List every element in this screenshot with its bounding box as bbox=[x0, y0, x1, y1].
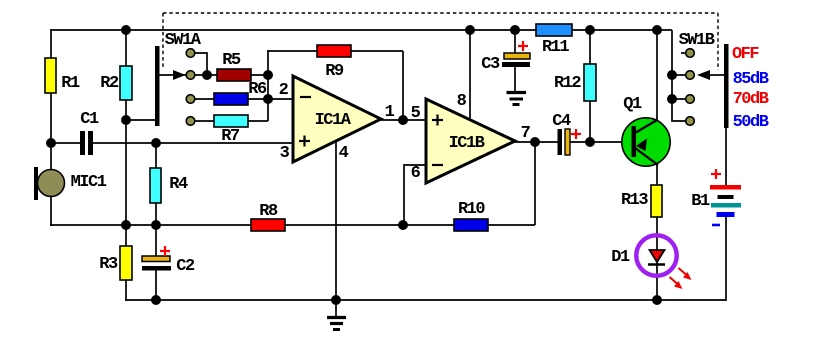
wire left vertical to R1 bbox=[50, 29, 52, 58]
node R12 rail junction bbox=[585, 25, 595, 35]
wire R7 row bbox=[191, 120, 214, 122]
node R4 top junction bbox=[151, 138, 161, 148]
resistor R13 bbox=[651, 185, 662, 217]
node main ground junction bbox=[331, 295, 341, 305]
ground symbol main bbox=[327, 301, 346, 330]
wire SW1B wiper bbox=[710, 74, 724, 76]
wire R3 top lead bbox=[125, 225, 127, 246]
dashed gang link top bbox=[163, 12, 718, 14]
wire R9 feedback vertical bbox=[402, 51, 404, 120]
resistor R11 bbox=[536, 24, 572, 36]
svg-text:R4: R4 bbox=[169, 175, 188, 194]
switch SW1B wiper arrow bbox=[697, 70, 710, 80]
node C3 rail junction bbox=[510, 25, 520, 35]
wire R4 top lead bbox=[155, 143, 157, 168]
C2 plus sign bbox=[160, 246, 170, 256]
wire battery plus to SW1B bar bbox=[725, 128, 727, 185]
resistor R4 bbox=[150, 168, 161, 203]
svg-text:R1: R1 bbox=[61, 74, 80, 93]
B1 minus sign bbox=[712, 224, 720, 227]
switch SW1A contact 2 bbox=[186, 71, 195, 80]
wire R1 bottom to MIC1 bbox=[50, 93, 52, 170]
resistor R1 bbox=[45, 58, 56, 93]
svg-text:7: 7 bbox=[521, 124, 531, 143]
resistor R8 bbox=[251, 219, 285, 231]
svg-text:MIC1: MIC1 bbox=[71, 173, 107, 192]
B1 plus sign bbox=[711, 169, 721, 179]
switch SW1B contact 2 bbox=[686, 71, 695, 80]
wire R12 top lead bbox=[589, 30, 591, 64]
wire IC1B pin8 supply bbox=[469, 30, 471, 120]
wire C3 top lead bbox=[514, 30, 516, 53]
D1 light arrow 1 bbox=[679, 268, 692, 280]
svg-text:1: 1 bbox=[385, 103, 395, 122]
node SW1B contact3 junction bbox=[667, 94, 677, 104]
svg-text:B1: B1 bbox=[691, 192, 710, 211]
wire R12 bottom lead bbox=[589, 101, 591, 142]
switch SW1A wiper arrow bbox=[173, 70, 186, 80]
node R3 rail junction bbox=[121, 220, 131, 230]
node R2 bottom junction bbox=[121, 115, 131, 125]
node SW1A contact junction bbox=[202, 70, 212, 80]
node D1 ground junction bbox=[652, 295, 662, 305]
node R5 right junction bbox=[263, 70, 273, 80]
wire battery minus vertical bbox=[725, 217, 727, 301]
wire R9 left bbox=[267, 50, 317, 52]
op-amp IC1A bbox=[293, 76, 381, 162]
wire C2 top lead bbox=[155, 225, 157, 256]
C4 plus sign bbox=[571, 129, 581, 139]
wire Q1 emitter to R13 to D1 to ground bbox=[656, 164, 658, 300]
svg-text:R10: R10 bbox=[458, 200, 485, 219]
wire SW1B contact3 link bbox=[672, 98, 686, 100]
svg-text:IC1A: IC1A bbox=[315, 111, 352, 130]
wire MIC1 bottom bbox=[50, 196, 52, 226]
resistor R12 bbox=[584, 64, 596, 101]
svg-text:8: 8 bbox=[457, 92, 467, 111]
wire summing node vertical bbox=[267, 51, 269, 121]
wire ground rail bottom bbox=[125, 299, 726, 301]
resistor R3 bbox=[120, 246, 132, 280]
battery B1 bbox=[691, 185, 741, 217]
svg-text:R5: R5 bbox=[222, 51, 241, 70]
microphone MIC1 bbox=[34, 167, 107, 200]
wire R9 right bbox=[351, 50, 403, 52]
wire C4 to Q1 base bbox=[570, 141, 633, 143]
transistor Q1 bbox=[622, 95, 670, 166]
wire R2 bottom vertical bbox=[125, 100, 127, 225]
svg-text:Q1: Q1 bbox=[623, 95, 642, 114]
svg-text:70dB: 70dB bbox=[733, 90, 769, 109]
dashed gang link left bbox=[162, 13, 164, 67]
svg-text:6: 6 bbox=[411, 164, 421, 183]
svg-text:2: 2 bbox=[279, 81, 289, 100]
svg-text:R13: R13 bbox=[621, 191, 648, 210]
resistor R10 bbox=[454, 219, 488, 231]
wire Q1 collector vertical bbox=[656, 30, 658, 121]
capacitor C1 bbox=[80, 110, 99, 155]
svg-text:3: 3 bbox=[280, 144, 290, 163]
node Q1 base junction bbox=[585, 137, 595, 147]
resistor R9 bbox=[317, 45, 351, 57]
switch SW1B contact 3 bbox=[686, 95, 695, 104]
wire R2 junction to SW1A bar bbox=[126, 119, 156, 121]
node R4 rail junction bbox=[151, 220, 161, 230]
svg-text:R9: R9 bbox=[325, 62, 344, 81]
wire R3 bottom lead bbox=[125, 280, 127, 301]
svg-text:R8: R8 bbox=[259, 202, 278, 221]
node IC1B output junction bbox=[530, 137, 540, 147]
capacitor C4 bbox=[552, 112, 571, 155]
wire R7 to node vertical bbox=[248, 120, 268, 122]
node pin6 rail junction bbox=[398, 220, 408, 230]
wire R6 row bbox=[191, 98, 214, 100]
switch SW1B pole bar bbox=[724, 44, 729, 128]
wire mid rail right bbox=[488, 224, 535, 226]
node Q1 collector rail junction bbox=[652, 25, 662, 35]
dashed gang link right bbox=[717, 13, 719, 70]
wire feedback R10 vertical bbox=[534, 142, 536, 225]
wire IC1B output to C4 bbox=[514, 141, 558, 143]
ground symbol C3 bbox=[507, 93, 527, 105]
wire R4 bottom lead bbox=[155, 203, 157, 225]
svg-text:C3: C3 bbox=[481, 55, 500, 74]
D1 light arrow 2 bbox=[670, 277, 683, 289]
svg-text:D1: D1 bbox=[611, 248, 630, 267]
node IC1A output junction bbox=[398, 115, 408, 125]
svg-text:C1: C1 bbox=[80, 110, 99, 129]
wire SW1B common vertical bbox=[672, 30, 686, 121]
resistor R2 bbox=[120, 66, 132, 100]
LED D1 bbox=[611, 235, 676, 275]
svg-text:R11: R11 bbox=[542, 38, 569, 57]
svg-text:IC1B: IC1B bbox=[449, 134, 485, 153]
wire C1 left bbox=[51, 142, 80, 144]
wire SW1A contact1 link bbox=[195, 53, 207, 75]
wire mid rail centre bbox=[285, 224, 454, 226]
svg-text:SW1A: SW1A bbox=[165, 31, 202, 50]
wire SW1B contact2 link bbox=[672, 74, 686, 76]
wire C3 bottom lead bbox=[514, 67, 516, 92]
op-amp IC1B bbox=[426, 99, 515, 183]
wire R5 row bbox=[159, 74, 268, 76]
node C2 ground junction bbox=[151, 295, 161, 305]
resistor R5 bbox=[217, 69, 251, 81]
wire SW1B contact1 stub bbox=[681, 52, 686, 54]
C3 plus sign bbox=[518, 41, 528, 51]
wire IC1A output to IC1B pin5 bbox=[381, 119, 426, 121]
switch SW1B contact 1 bbox=[686, 49, 695, 58]
svg-text:R7: R7 bbox=[221, 127, 240, 146]
svg-text:5: 5 bbox=[411, 104, 421, 123]
switch SW1B contact 4 bbox=[686, 117, 695, 126]
node pin2 junction bbox=[263, 94, 273, 104]
node pin8 rail junction bbox=[465, 25, 475, 35]
svg-text:85dB: 85dB bbox=[733, 70, 769, 89]
wire IC1B pin6 bbox=[404, 165, 426, 225]
wire C2 bottom lead bbox=[155, 270, 157, 300]
wire C1 right to pin3 bbox=[93, 142, 293, 144]
svg-text:4: 4 bbox=[339, 144, 349, 163]
svg-text:R2: R2 bbox=[100, 74, 119, 93]
wire top supply rail bbox=[51, 29, 672, 31]
capacitor C2 bbox=[142, 256, 195, 276]
svg-text:R12: R12 bbox=[554, 74, 581, 93]
svg-text:50dB: 50dB bbox=[733, 113, 769, 132]
wire R2 branch top bbox=[125, 30, 127, 66]
node C1 junction bbox=[46, 138, 56, 148]
switch SW1A pole bar bbox=[155, 46, 160, 126]
svg-text:OFF: OFF bbox=[732, 45, 759, 64]
resistor R7 bbox=[214, 115, 248, 127]
wire IC1A pin4 to ground bbox=[335, 141, 337, 300]
wire pin2 input bbox=[248, 98, 293, 100]
node R2 top rail junction bbox=[121, 25, 131, 35]
switch SW1A contact 4 bbox=[186, 117, 195, 126]
capacitor C3 bbox=[481, 53, 530, 74]
node SW1B contact2 junction bbox=[667, 70, 677, 80]
svg-text:SW1B: SW1B bbox=[679, 31, 715, 50]
svg-text:C2: C2 bbox=[176, 257, 195, 276]
resistor R6 bbox=[214, 93, 248, 105]
switch SW1A contact 3 bbox=[186, 95, 195, 104]
switch SW1A contact 1 bbox=[186, 49, 195, 58]
wire mid rail left bbox=[50, 224, 251, 226]
svg-text:C4: C4 bbox=[552, 112, 571, 131]
svg-text:R3: R3 bbox=[99, 255, 118, 274]
